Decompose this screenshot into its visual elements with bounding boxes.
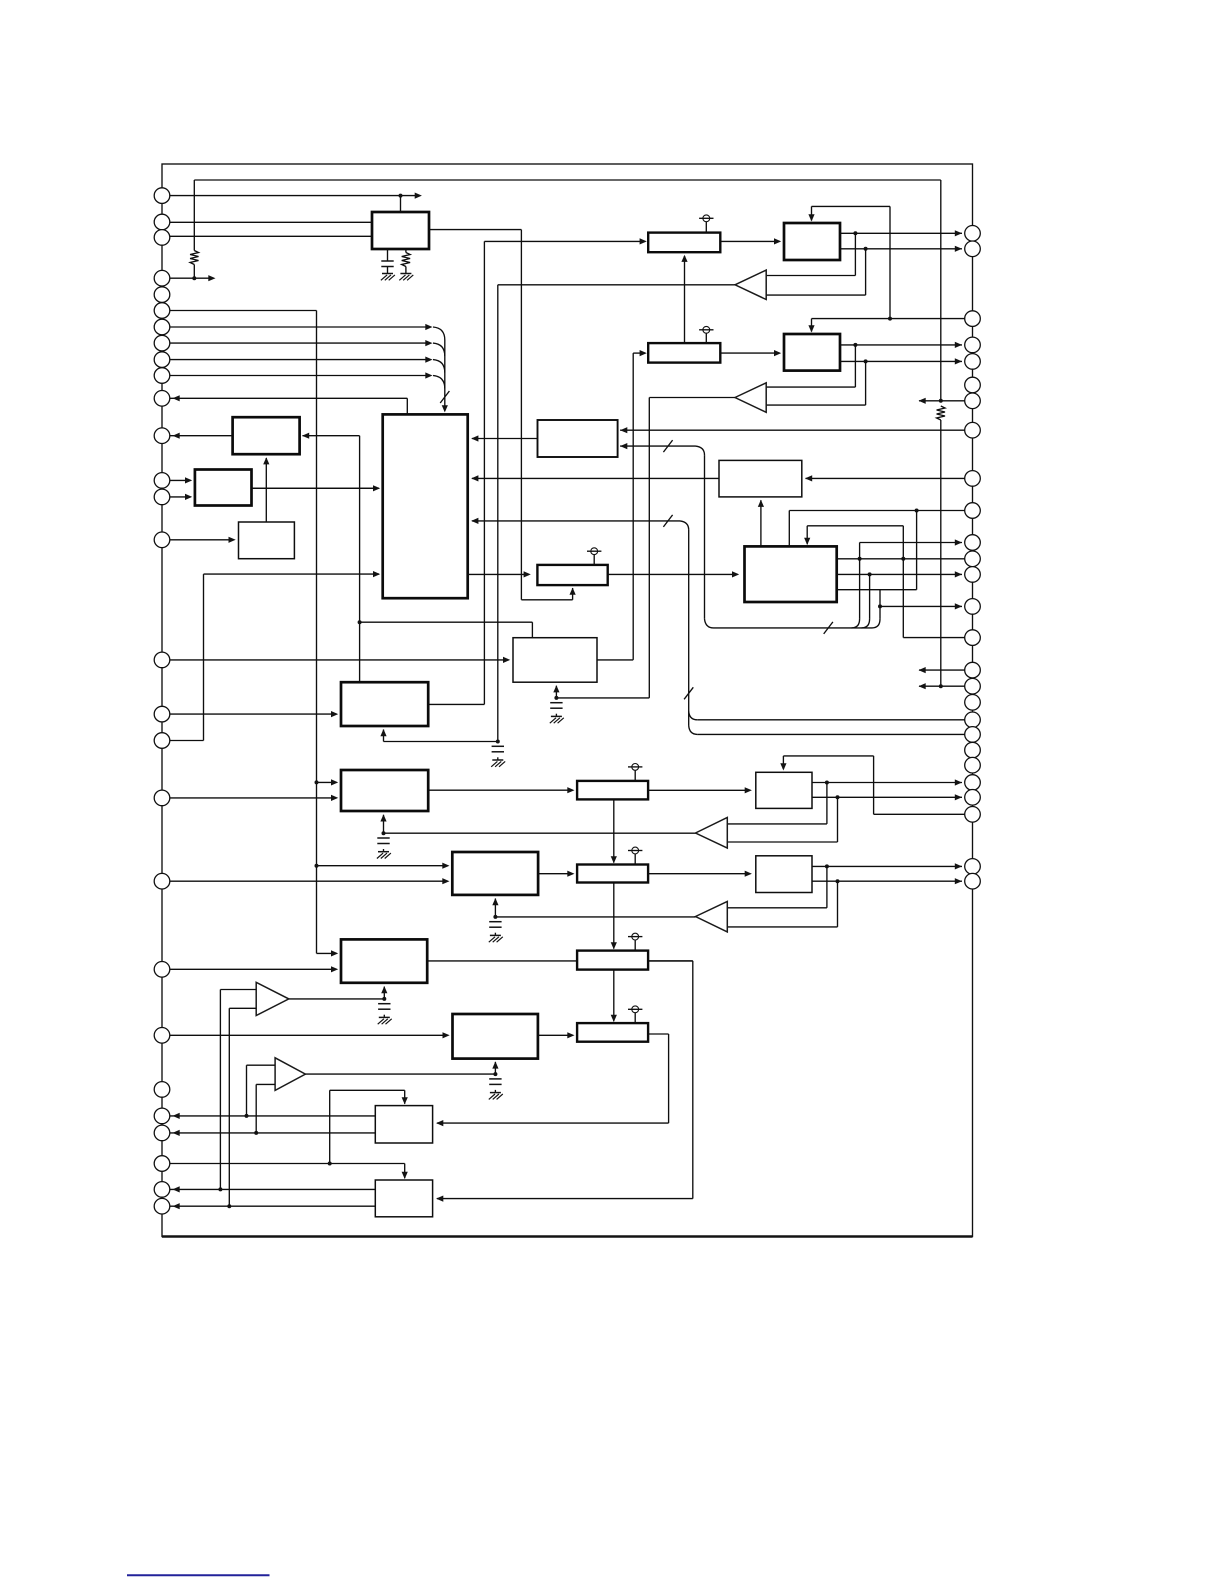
wire: rail below R3 to pin R17 node	[940, 420, 942, 686]
arrow: up into OSC1 amp bottom	[681, 255, 687, 262]
wire: RG1 to pin L12	[162, 435, 233, 437]
wire: pin L19 to F2 lower	[162, 797, 337, 799]
block A2 (OSC2 amplifier)	[648, 343, 720, 363]
arrow: into RG2 lower	[185, 494, 192, 500]
wire: pin R9 to I1 right	[806, 477, 973, 479]
wire: pin L1 to PLL block top	[162, 195, 419, 197]
pin 15 (left)	[154, 532, 170, 548]
pin 46 (right)	[965, 695, 981, 711]
arrow: data line 3 onto bus	[425, 357, 432, 363]
arrow: into pin R26	[955, 863, 962, 869]
capacitor C2 (mixer E node)	[492, 745, 504, 747]
arrow: down into H1 top	[804, 538, 810, 545]
wire: feedback net to RG1 right edge	[303, 435, 360, 437]
bus slash (G1 input bus)	[663, 515, 672, 527]
wire: pin L6 control bus down left side	[162, 310, 317, 312]
pin 45 (right)	[965, 678, 981, 694]
arrow: into T2 right	[436, 1196, 443, 1202]
capacitor C3 (mixer D node)	[550, 702, 562, 704]
pin 5 (left)	[154, 287, 170, 303]
wire: C2 to ground	[497, 757, 499, 759]
junction: T2 out2	[227, 1204, 231, 1208]
wire: M1 out2 to buffer W4 lower	[837, 881, 839, 927]
wire: H out2 branch down to bus	[869, 574, 871, 619]
junction: pin R3 line	[888, 317, 892, 321]
block U1 (PLL / VCO)	[372, 212, 429, 249]
pin 51 (right)	[965, 775, 981, 791]
wire: bus from divider outputs to G2 (upper run)	[620, 445, 695, 447]
pin 6 (left)	[154, 303, 170, 319]
arrow: up into F2 bottom	[380, 814, 386, 821]
wire: pin R8 to G2 right	[620, 429, 972, 431]
pin 23 (left)	[154, 1082, 170, 1098]
wire: control bus to O1 upper	[317, 865, 448, 867]
wire: B1 out2 down to buffer T1 lower input	[865, 249, 867, 295]
arrow: up into RG1 bottom	[263, 457, 269, 464]
arrow: down into T2 top	[402, 1172, 408, 1179]
footer rule (blue)	[127, 1574, 270, 1576]
wire: R2 to ground	[405, 267, 407, 274]
arrow: into OSC2 amp left	[640, 350, 647, 356]
arrow: into S1 left	[443, 1032, 450, 1038]
wire: pin L7 data line	[162, 326, 430, 328]
arrow: into pin R27	[955, 878, 962, 884]
wire: M1 out1 to buffer W4 upper	[826, 866, 828, 907]
wire: C4 to ground	[383, 849, 385, 851]
arrow: into RG2 upper	[185, 477, 192, 483]
block P1 (AM tuner amp)	[341, 939, 427, 982]
junction: P1 node at C6	[382, 997, 386, 1001]
pin 31 (right)	[965, 311, 981, 327]
pin 47 (right)	[965, 712, 981, 728]
wire: T1 out2 up to W6 lower input	[255, 1084, 257, 1133]
arrow: bus into logic block top	[442, 405, 448, 412]
buffer amp W1 (OSC1, points left)	[735, 270, 766, 299]
wire: T2 out1 to pin L27	[162, 1188, 375, 1190]
pin 26 (left)	[154, 1156, 170, 1172]
junction: branch to mixer D top	[358, 620, 362, 624]
ground (under C2)	[492, 759, 503, 761]
wire: T2 out2 up to W5 lower input	[228, 1008, 230, 1206]
pin 25 (left)	[154, 1125, 170, 1141]
wire: bus A vertical run	[688, 530, 690, 726]
wire: bus A merge arc to pin R19 line	[689, 711, 698, 720]
wire: B1 out2 to pin R2	[840, 248, 962, 250]
pin 54 (right)	[965, 859, 981, 875]
pin 43 (right)	[965, 630, 981, 646]
wire: pin L16 to D1 left	[162, 659, 509, 661]
wire: bus horizontal run under divider H	[714, 627, 873, 629]
junction: pin R10 rail	[915, 509, 919, 513]
wire: FL2 bottom to FL3 top	[613, 883, 615, 949]
pin 34 (right)	[965, 377, 981, 393]
wire: stub to pin R14	[880, 605, 962, 607]
wire: bus merge arc v1	[852, 619, 860, 628]
wire: K1 out1 to pin R23	[812, 782, 962, 784]
resistor R1 (left rail)	[190, 251, 198, 265]
pin 55 (right)	[965, 873, 981, 889]
ground (under C3)	[551, 715, 562, 717]
buffer amp W6 (points right)	[275, 1058, 305, 1091]
bus slash (data bus)	[440, 391, 449, 403]
wire: merge arc 4	[433, 376, 445, 389]
pin 38 (right)	[965, 503, 981, 519]
junction: B1 out2	[864, 247, 868, 251]
arrow: into OSC1 amp left	[640, 238, 647, 244]
pin 14 (left)	[154, 489, 170, 505]
arrow: down into T1 top	[402, 1097, 408, 1104]
junction: T1 out2	[254, 1131, 258, 1135]
wire: pin L4 row with stub arrow	[162, 277, 213, 279]
wire: inner supply rail (pin 4 to right resistor)	[194, 179, 941, 181]
wire: branch to mixer D top	[360, 621, 533, 623]
junction: OSC2 node at C3	[554, 696, 558, 700]
arrow: into pin R1	[955, 230, 962, 236]
arrow: into F2 lower	[331, 795, 338, 801]
arrow: data line 4 onto bus	[425, 372, 432, 378]
pin 33 (right)	[965, 354, 981, 370]
wire: H1 out1 to pin R12	[837, 558, 973, 560]
block K1 (detector)	[756, 772, 812, 808]
wire: pin L15 to RG3	[162, 539, 234, 541]
junction: R1 node	[192, 276, 196, 280]
ground (under C5)	[490, 934, 501, 936]
capacitor C7 (S1 node)	[489, 1078, 501, 1080]
wire: FL2 to M1	[648, 873, 750, 875]
wire: H1 feedback rail into top	[807, 525, 903, 527]
wire: control bus to F2 upper	[317, 781, 337, 783]
buffer amp W2 (OSC2, points left)	[735, 383, 766, 413]
block S1 (AM tuner amp 2)	[453, 1014, 538, 1059]
wire: F2 to filter FL1	[428, 789, 573, 791]
pin 30 (right)	[965, 241, 981, 257]
arrow: data line 2 onto bus	[425, 340, 432, 346]
arrow: into pin R5	[955, 358, 962, 364]
ground (under R2)	[400, 273, 411, 275]
block A1 (OSC1 amplifier)	[648, 233, 720, 253]
arrow: up into P1 bottom	[381, 986, 387, 993]
pin 18 (left)	[154, 733, 170, 749]
arrow: up into O1 bottom	[492, 898, 498, 905]
trimmer capacitor CT2 (above OSC2)	[705, 333, 707, 343]
junction: M1 out1	[825, 864, 829, 868]
arrow: into G1 left (from B)	[373, 485, 380, 491]
pin 11 (left)	[154, 391, 170, 407]
bus slash (H output bus)	[824, 622, 833, 634]
arrow: into F1 left	[524, 571, 531, 577]
wire: resistor R1 to node	[193, 265, 195, 279]
junction: bus at F2	[315, 780, 319, 784]
arrow: into D1 left	[503, 657, 510, 663]
pin 19 (left)	[154, 790, 170, 806]
junction: B2 out1	[853, 343, 857, 347]
wire: mixer E output up to OSC1 amp input	[428, 703, 484, 705]
buffer amp W3 (points left)	[696, 818, 728, 849]
block O1 (IF amp 2)	[452, 852, 538, 895]
arrow: into G1 right edge (bus A)	[471, 518, 478, 524]
wire: pin L3 to PLL block	[162, 235, 372, 237]
block RG3 (status)	[239, 522, 295, 559]
wire: U1 bottom stub to R2	[405, 249, 407, 253]
block FL1 (ceramic filter)	[577, 781, 648, 800]
junction: M1 out2	[836, 879, 840, 883]
pin 49 (right)	[965, 742, 981, 758]
arrow: into H left	[732, 571, 739, 577]
block D1 (mixer/detector)	[513, 638, 597, 683]
wire: H out1 branch down to bus	[859, 559, 861, 619]
wire: C5 to ground	[494, 933, 496, 935]
arrow: into M1 left	[745, 871, 752, 877]
wire: W4 output to O1 bottom node	[495, 916, 695, 918]
block M1 (detector 2)	[756, 856, 812, 893]
block FL4 (ceramic filter 4)	[577, 1023, 648, 1042]
pin 7 (left)	[154, 319, 170, 335]
pin 3 (left)	[154, 230, 170, 246]
wire: W1 output to mixer E bottom node	[498, 284, 735, 286]
arrow: into RG3 left	[229, 537, 236, 543]
pin 27 (left)	[154, 1182, 170, 1198]
pin 29 (right)	[965, 226, 981, 242]
block RG2 (command decoder)	[195, 470, 252, 506]
arrow: into pin L24	[173, 1113, 180, 1119]
wire: P1 to filter FL3	[427, 960, 693, 962]
arrow: into pin R2	[955, 246, 962, 252]
arrow: into block B1 left	[774, 238, 781, 244]
pin 12 (left)	[154, 428, 170, 444]
junction: H out2 branch	[868, 572, 872, 576]
pin 2 (left)	[154, 214, 170, 230]
junction: B2 out2	[864, 359, 868, 363]
resistor R3 (right rail)	[937, 406, 945, 420]
arrow: into FL2 left	[567, 871, 574, 877]
trimmer capacitor CT5 (above FL2)	[634, 854, 636, 865]
wire: merge arc 1	[433, 327, 445, 340]
wire: U1 bottom stub to C1	[387, 249, 389, 261]
pin 20 (left)	[154, 873, 170, 889]
pin 36 (right)	[965, 422, 981, 438]
pin 13 (left)	[154, 473, 170, 489]
wire: pin R25 to K1 top	[874, 813, 973, 815]
pin 52 (right)	[965, 790, 981, 806]
wire: feedback vertical (RG1/D/E net)	[359, 436, 361, 683]
wire: T1 out1 up to W6 upper input	[246, 1065, 248, 1116]
pin 4 (left)	[154, 270, 170, 286]
wire: FL4 out down to T1 right	[648, 1033, 669, 1035]
arrow: stub left at pin R16	[919, 667, 926, 673]
wire: merge arc 3	[433, 360, 445, 373]
block RG1 (latch)	[233, 417, 300, 454]
wire: pin L8 data line	[162, 342, 430, 344]
arrow: into RG1 right edge	[302, 433, 309, 439]
wire: pin R3 to B2 top and B1 top	[812, 318, 973, 320]
arrow: into pin R24	[955, 794, 962, 800]
trimmer capacitor CT1 (above OSC1)	[705, 222, 707, 233]
pin 48 (right)	[965, 727, 981, 743]
block I1 (comparator)	[719, 460, 802, 497]
wire: C3 to ground	[555, 714, 557, 716]
arrow: stub left at pin R7	[919, 398, 926, 404]
arrow: stub right at pin L4 row	[208, 275, 215, 281]
wire: bus corner arc (bottom)	[705, 619, 714, 628]
block B1 (OSC1 output stage)	[784, 223, 840, 260]
wire: pin L14 to RG2	[162, 496, 191, 498]
arrow: into FL4 left	[567, 1032, 574, 1038]
wire: W5 output to P1 bottom node	[289, 998, 385, 1000]
wire: box B out to G1 left	[252, 487, 380, 489]
wire: pin L9 data line	[162, 359, 430, 361]
wire: RG3 up to RG1	[265, 458, 267, 522]
arrow: down into B1 top	[808, 214, 814, 221]
wire: pin R10 rail branch down to H right-edge line	[916, 511, 918, 590]
wire: O1 to filter FL2	[538, 873, 573, 875]
wire: pin R7 stub with arrow	[919, 400, 973, 402]
junction: pin R14 stub	[878, 604, 882, 608]
capacitor C5 (O1 node)	[489, 921, 501, 923]
wire: FL3 out down to T2 right	[648, 960, 693, 962]
wire: pin L2 to PLL block	[162, 221, 372, 223]
block E1 (mixer/detector)	[341, 682, 428, 726]
wire: OSC2 amp to buffer B2	[720, 352, 779, 354]
block FL2 (ceramic filter 2)	[577, 865, 648, 883]
wire: OSC1 amp to buffer B1	[720, 240, 779, 242]
wire: pin L22 to S1 left	[162, 1034, 448, 1036]
wire: H1 out2 to pin R13	[837, 573, 962, 575]
block F1 (programmable divider)	[537, 565, 607, 585]
junction: bus at O1	[315, 864, 319, 868]
wire: pin R19 line	[697, 719, 972, 721]
wire: pin R16 stub with arrow	[919, 669, 973, 671]
block T1 (demodulator 1)	[375, 1106, 432, 1143]
wire: control bus corner to P1 upper	[317, 952, 337, 954]
arrow: into O1 lower	[442, 878, 449, 884]
wire: FL1 bottom to FL2 top	[613, 799, 615, 862]
arrow: up into I1 bottom	[758, 500, 764, 507]
wire: third line branch down to bus	[879, 590, 881, 619]
pin 37 (right)	[965, 471, 981, 487]
wire: bus merge arc v2	[862, 619, 870, 628]
arrow: into P1 lower	[331, 966, 338, 972]
wire: B2 out1 down to buffer W2 upper input	[854, 345, 856, 387]
pin 50 (right)	[965, 757, 981, 773]
block H1 (frequency divider)	[745, 546, 837, 602]
arrow: into G1 left (from pin L18)	[373, 571, 380, 577]
wire: T1 out1 to pin L24	[162, 1115, 375, 1117]
arrow: into pin R13	[955, 571, 962, 577]
arrow: into pin L28	[173, 1203, 180, 1209]
arrow: into pin L11	[173, 395, 180, 401]
pin 22 (left)	[154, 1028, 170, 1044]
arrow: into pin L12	[173, 433, 180, 439]
wire: logic block to pin L11	[162, 397, 407, 399]
wire: B2 out1 to pin R4	[840, 344, 962, 346]
wire: G2 output to G1	[472, 438, 538, 440]
block FL3 (ceramic filter 3)	[577, 951, 648, 970]
wire: bus corner arc (top)	[696, 446, 705, 455]
arrow: up into mixer E bottom	[380, 729, 386, 736]
junction: K1 out1	[825, 781, 829, 785]
arrow: into G1 right edge (from I1)	[471, 475, 478, 481]
outer boundary frame (IC body)	[162, 164, 973, 1237]
trimmer capacitor CT6 (above FL3)	[634, 940, 636, 951]
arrow: into FL1 left	[567, 787, 574, 793]
pin 39 (right)	[965, 535, 981, 551]
arrow: into pin R4	[955, 342, 962, 348]
capacitor C6 (P1 node)	[378, 1003, 390, 1005]
wire: FL1 to K1	[648, 789, 750, 791]
wire: W2 output to mixer D bottom node	[649, 397, 735, 399]
arrow: down into K1 top	[780, 763, 786, 770]
pin 21 (left)	[154, 962, 170, 978]
arrow: into E1 left	[331, 711, 338, 717]
arrow: into O1 upper	[442, 863, 449, 869]
wire: bus A merge arc to pin R20 line	[689, 726, 698, 735]
wire: C7 to ground	[494, 1090, 496, 1092]
resistor R2 (under U1)	[402, 253, 410, 267]
arrow: into T1 right	[436, 1120, 443, 1126]
wire: K1 out1 to buffer W3 upper	[826, 783, 828, 824]
wire: mixer D output up to OSC2 amp input	[597, 659, 633, 661]
junction: T2 out1	[218, 1187, 222, 1191]
pin 8 (left)	[154, 335, 170, 351]
wire: H1 third line to right	[837, 589, 917, 591]
pin 10 (left)	[154, 368, 170, 384]
wire: pin R10 rail to H1 top	[789, 510, 972, 512]
wire: G1 to F1 left	[468, 573, 529, 575]
wire: H1 top to I1 bottom	[760, 500, 762, 546]
arrow: stub right on pin L1 line	[415, 193, 422, 199]
wire: bus vertical run	[704, 455, 706, 619]
wire: OSC1 bottom to OSC2 top	[684, 256, 686, 343]
arrow: into block B2 left	[774, 350, 781, 356]
wire: F1 to divider H	[608, 573, 738, 575]
pin 32 (right)	[965, 337, 981, 353]
arrow: into pin L27	[173, 1186, 180, 1192]
wire: B1 out1 to pin R1	[840, 232, 962, 234]
wire: bus from pins R19/R20 to G1 (top run)	[472, 520, 680, 522]
pin 24 (left)	[154, 1108, 170, 1124]
pin 41 (right)	[965, 567, 981, 583]
arrow: into pin R14	[955, 603, 962, 609]
pin 17 (left)	[154, 706, 170, 722]
junction: B1 out1	[853, 231, 857, 235]
arrow: up into S1 bottom	[492, 1061, 498, 1068]
wire: C6 to ground	[383, 1015, 385, 1017]
arrow: into pin R11	[955, 539, 962, 545]
arrow: data line 1 onto bus	[425, 324, 432, 330]
junction: pin L1 line	[399, 194, 403, 198]
junction: O1 node at C5	[493, 915, 497, 919]
wire: merge arc 2	[433, 343, 445, 356]
arrow: into G2 upper right	[620, 427, 627, 433]
pin 42 (right)	[965, 599, 981, 615]
wire: T2 out1 up to W5 upper input	[219, 990, 221, 1190]
arrow: into divider F1 bottom	[570, 588, 576, 595]
arrow: into F2 upper	[331, 779, 338, 785]
trimmer capacitor CT3 (above F1)	[593, 555, 595, 565]
arrow: down into FL4 top	[611, 1015, 617, 1022]
wire: B2 out2 down to buffer W2 lower input	[865, 361, 867, 405]
wire: M1 out1 to pin R26	[812, 865, 962, 867]
wire: pin L20 to O1 lower	[162, 880, 448, 882]
pin 16 (left)	[154, 652, 170, 668]
junction: pin R17 node	[939, 684, 943, 688]
wire: pin R17 stub with arrow	[919, 685, 973, 687]
arrow: stub left at pin R17	[919, 683, 926, 689]
trimmer capacitor CT4 (above FL1)	[634, 770, 636, 781]
wire: K1 out2 to buffer W3 lower	[837, 797, 839, 842]
wire: S1 to FL4	[538, 1034, 573, 1036]
arrow: down into B2 top	[808, 325, 814, 332]
